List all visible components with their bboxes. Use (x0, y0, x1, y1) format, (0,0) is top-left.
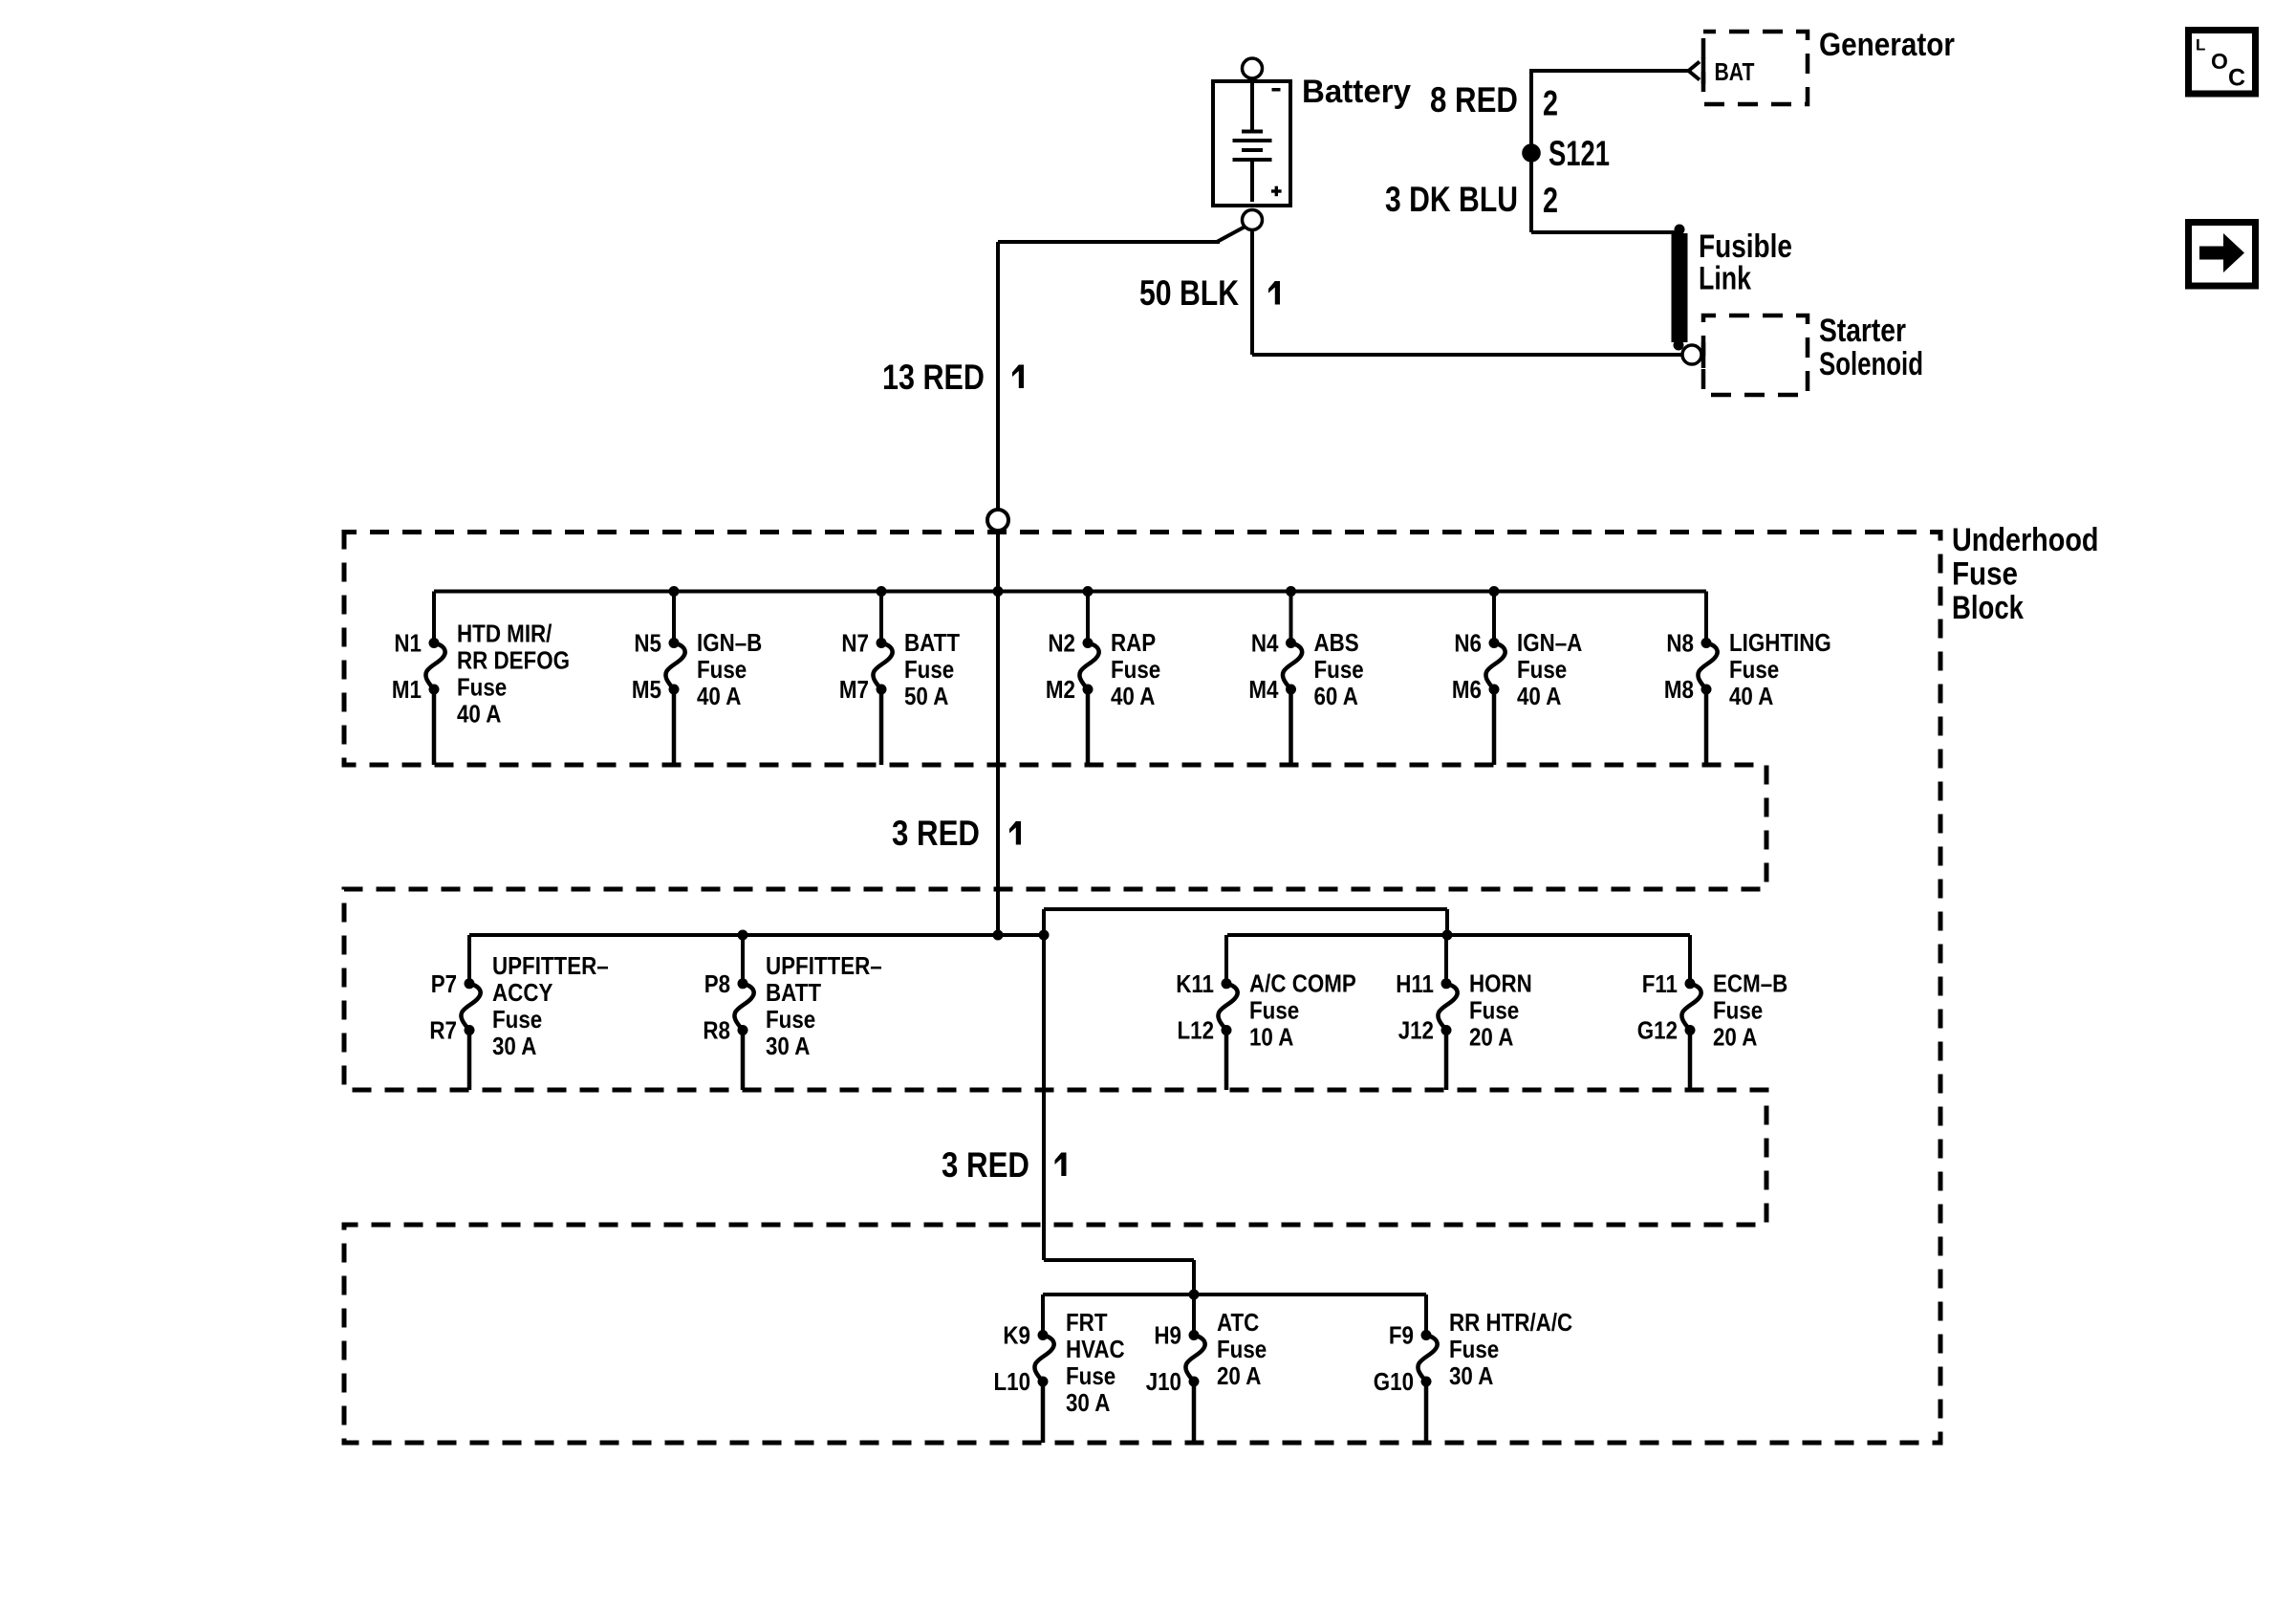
svg-text:G10: G10 (1374, 1367, 1414, 1396)
svg-text:M7: M7 (839, 675, 869, 704)
battery minus sign (1272, 88, 1281, 92)
svg-text:N1: N1 (394, 629, 422, 658)
terminal dot J12 (1441, 1025, 1452, 1035)
svg-text:Fuse: Fuse (492, 1005, 542, 1033)
terminal dot F11 (1685, 978, 1696, 989)
svg-text:M5: M5 (632, 675, 661, 704)
svg-text:N5: N5 (634, 629, 661, 658)
svg-text:RR DEFOG: RR DEFOG (457, 646, 570, 675)
wire stub below M1 to block edge (432, 689, 437, 765)
starter solenoid dashed box (1703, 315, 1808, 395)
svg-text:40 A: 40 A (1111, 682, 1156, 710)
svg-text:UPFITTER–: UPFITTER– (492, 951, 609, 980)
connector circle at fuse block entry (987, 510, 1008, 531)
wire 50 BLK horizontal to starter solenoid (1252, 353, 1682, 357)
svg-text:Fuse: Fuse (1066, 1361, 1116, 1390)
svg-text:H9: H9 (1154, 1321, 1181, 1350)
svg-text:HORN: HORN (1469, 969, 1532, 998)
battery B1 box (1213, 81, 1290, 206)
fuse element ABS (1283, 643, 1302, 690)
svg-text:K11: K11 (1176, 969, 1214, 998)
terminal dot F9 (1421, 1330, 1432, 1340)
terminal dot N6 (1489, 638, 1500, 648)
svg-text:P7: P7 (431, 969, 457, 998)
wire stub below M5 to block edge (672, 689, 677, 765)
svg-text:L: L (2196, 35, 2205, 54)
svg-text:F11: F11 (1642, 969, 1678, 998)
wire stub from row 2 bus to P8 (741, 935, 745, 984)
wire stub from row 1 bus to N5 (672, 592, 676, 643)
svg-text:J10: J10 (1146, 1367, 1181, 1396)
svg-text:IGN–B: IGN–B (697, 628, 762, 657)
terminal dot G10 (1421, 1377, 1432, 1387)
svg-text:BATT: BATT (766, 978, 821, 1007)
wire trunk jog horizontal (1044, 1258, 1194, 1262)
svg-text:8 RED: 8 RED (1430, 80, 1518, 120)
arrow reference box (2189, 223, 2256, 287)
terminal dot N7 (877, 638, 887, 648)
battery positive terminal circle (1243, 210, 1263, 230)
BAT connector arrow at generator (1689, 62, 1700, 80)
svg-text:Block: Block (1952, 590, 2024, 626)
row 3 feed bus (1043, 1293, 1426, 1296)
fusible link element bar (1672, 233, 1688, 342)
arrow glyph (2199, 233, 2244, 272)
svg-text:3 RED: 3 RED (892, 814, 980, 853)
junction on row 1 bus at N6 (1489, 586, 1500, 597)
fusible link top terminal dot (1675, 225, 1685, 235)
battery plate short 2 (1242, 148, 1263, 152)
terminal dot M8 (1701, 685, 1712, 695)
svg-text:Fuse: Fuse (457, 673, 507, 702)
svg-text:30 A: 30 A (492, 1032, 537, 1060)
fuse element ECM-B (1681, 984, 1700, 1031)
wire 8 RED from generator BAT horizontal (1531, 69, 1688, 73)
svg-text:S121: S121 (1549, 134, 1610, 173)
wire stub below R7 to block edge (467, 1031, 472, 1091)
svg-text:R8: R8 (703, 1016, 730, 1045)
fuse element UPFITTER-ACCY (461, 984, 480, 1031)
svg-text:K9: K9 (1003, 1321, 1030, 1350)
wire riser from row 2 bus junction (1042, 909, 1046, 935)
terminal dot M4 (1286, 685, 1296, 695)
svg-text:20 A: 20 A (1713, 1023, 1758, 1052)
wire drop from upper branch to right bus (1445, 909, 1449, 935)
svg-text:BAT: BAT (1715, 57, 1755, 86)
svg-text:Fuse: Fuse (1111, 655, 1160, 684)
fuse element HTD MIR/RR DEFOG (425, 643, 444, 690)
svg-text:Fuse: Fuse (1517, 655, 1567, 684)
svg-text:L12: L12 (1178, 1016, 1215, 1045)
svg-text:M8: M8 (1664, 675, 1694, 704)
label circuit 1 at 50 BLK (1268, 281, 1280, 305)
fusible link bottom terminal dot (1674, 340, 1684, 351)
svg-text:Fuse: Fuse (1217, 1335, 1267, 1363)
junction on row 1 bus at N4 (1286, 586, 1296, 597)
terminal dot R7 (465, 1025, 475, 1035)
row 2 right bus (1227, 933, 1690, 937)
terminal dot M6 (1489, 685, 1500, 695)
terminal dot K9 (1038, 1330, 1049, 1340)
wire stub below G10 to block edge (1424, 1382, 1429, 1443)
svg-text:RAP: RAP (1111, 628, 1156, 657)
terminal dot G12 (1685, 1025, 1696, 1035)
wire stub from row 3 bus to F9 (1424, 1295, 1428, 1336)
svg-text:40 A: 40 A (1517, 682, 1562, 710)
svg-text:Fuse: Fuse (1469, 996, 1519, 1025)
wire stub from row 3 bus to H9 (1192, 1295, 1196, 1336)
splice S121 (1522, 143, 1541, 163)
wire 3 RED trunk from row 2 bus downward (1042, 935, 1046, 1260)
wire stub below G12 to block edge (1688, 1031, 1693, 1091)
svg-text:Fuse: Fuse (1249, 996, 1299, 1025)
junction on row 1 bus at N5 (669, 586, 680, 597)
wire stub from row 1 bus to N2 (1086, 592, 1090, 643)
junction on row 2 bus at P8 (738, 930, 748, 941)
battery internal lead positive (1250, 162, 1254, 202)
svg-text:50 A: 50 A (904, 682, 949, 710)
junction on row 1 bus at N7 (877, 586, 887, 597)
wire 3 DK BLU horizontal to fusible link (1531, 230, 1679, 234)
svg-text:60 A: 60 A (1314, 682, 1359, 710)
wire stub below L12 to block edge (1224, 1031, 1229, 1091)
wire stub below M4 to block edge (1289, 689, 1293, 765)
svg-text:Link: Link (1699, 261, 1751, 297)
svg-text:N7: N7 (841, 629, 869, 658)
svg-text:30 A: 30 A (766, 1032, 811, 1060)
svg-text:Fuse: Fuse (1449, 1335, 1499, 1363)
svg-text:HTD MIR/: HTD MIR/ (457, 620, 552, 648)
terminal dot L12 (1222, 1025, 1232, 1035)
svg-text:J12: J12 (1398, 1016, 1434, 1045)
wire stub below J10 to block edge (1192, 1382, 1197, 1443)
terminal dot K11 (1222, 978, 1232, 989)
fuse element BATT (873, 643, 892, 690)
svg-text:RR HTR/A/C: RR HTR/A/C (1449, 1308, 1572, 1337)
svg-text:R7: R7 (429, 1016, 457, 1045)
underhood fuse block dashed outline (344, 533, 1940, 1444)
svg-text:ABS: ABS (1314, 628, 1359, 657)
wire stub below M6 to block edge (1492, 689, 1497, 765)
fuse element FRT HVAC (1034, 1336, 1053, 1382)
wire 13 RED diagonal+horizontal from battery positive (998, 227, 1245, 242)
svg-text:G12: G12 (1637, 1016, 1678, 1045)
battery plus sign (1271, 189, 1282, 192)
svg-text:LIGHTING: LIGHTING (1729, 628, 1831, 657)
label circuit 1 at first 3 RED (1009, 821, 1021, 845)
wire stub from row 2 right bus to F11 (1688, 935, 1692, 984)
fuse element LIGHTING (1698, 643, 1717, 690)
LOC reference box (2189, 31, 2256, 95)
battery plate short 1 (1242, 130, 1263, 134)
svg-text:HVAC: HVAC (1066, 1335, 1125, 1363)
svg-text:50 BLK: 50 BLK (1139, 273, 1239, 313)
svg-text:C: C (2228, 65, 2245, 92)
starter solenoid terminal circle (1682, 345, 1701, 364)
svg-text:13 RED: 13 RED (882, 358, 985, 397)
svg-text:N8: N8 (1666, 629, 1694, 658)
svg-text:ACCY: ACCY (492, 978, 552, 1007)
svg-text:Fuse: Fuse (1314, 655, 1364, 684)
svg-text:30 A: 30 A (1066, 1388, 1111, 1417)
svg-text:A/C COMP: A/C COMP (1249, 969, 1356, 998)
battery negative terminal circle (1243, 58, 1263, 78)
svg-text:Underhood: Underhood (1952, 522, 2099, 558)
fuse element HORN (1438, 984, 1457, 1031)
fuse element RAP (1079, 643, 1098, 690)
fuse element IGN-B (665, 643, 684, 690)
terminal dot N4 (1286, 638, 1296, 648)
svg-text:IGN–A: IGN–A (1517, 628, 1582, 657)
terminal dot H11 (1441, 978, 1452, 989)
svg-text:ECM–B: ECM–B (1713, 969, 1787, 998)
wire stub from row 2 right bus to K11 (1224, 935, 1228, 984)
svg-text:2: 2 (1543, 84, 1558, 123)
wire stub from row 1 bus to N4 (1289, 592, 1293, 643)
svg-text:O: O (2211, 49, 2228, 74)
svg-text:40 A: 40 A (1729, 682, 1774, 710)
terminal dot P8 (738, 978, 748, 989)
row 2 feed bus (469, 933, 1044, 937)
svg-text:3 DK BLU: 3 DK BLU (1385, 180, 1518, 219)
terminal dot L10 (1038, 1377, 1049, 1387)
svg-text:FRT: FRT (1066, 1308, 1108, 1337)
terminal dot J10 (1189, 1377, 1200, 1387)
junction on row 2 right bus at H11 (1442, 930, 1453, 941)
svg-text:Fuse: Fuse (1713, 996, 1763, 1025)
label circuit 1 at 13 RED (1012, 365, 1024, 389)
wire stub below J12 to block edge (1444, 1031, 1449, 1091)
svg-text:M4: M4 (1248, 675, 1279, 704)
starter solenoid box edge bar at terminal (1701, 342, 1706, 368)
svg-text:40 A: 40 A (457, 700, 502, 729)
battery plate long 2 (1233, 158, 1272, 162)
svg-text:20 A: 20 A (1217, 1361, 1262, 1390)
svg-text:M6: M6 (1452, 675, 1482, 704)
svg-text:2: 2 (1543, 181, 1558, 220)
BAT connector bar on generator box edge (1701, 57, 1706, 84)
svg-text:Fuse: Fuse (766, 1005, 815, 1033)
wire stub below M7 to block edge (879, 689, 884, 765)
fuse element A/C COMP (1218, 984, 1237, 1031)
wire stub from row 2 right bus to H11 (1444, 935, 1448, 984)
svg-text:Fuse: Fuse (904, 655, 954, 684)
svg-text:Battery: Battery (1302, 74, 1411, 110)
wire trunk jog down to row 3 bus (1192, 1260, 1196, 1295)
wire stub below M2 to block edge (1086, 689, 1091, 765)
terminal dot N2 (1083, 638, 1094, 648)
terminal dot N1 (429, 638, 440, 648)
svg-text:H11: H11 (1396, 969, 1434, 998)
generator dashed box (1703, 32, 1808, 104)
terminal dot H9 (1189, 1330, 1200, 1340)
svg-text:P8: P8 (704, 969, 730, 998)
wire 50 BLK vertical from battery positive (1250, 228, 1254, 355)
svg-text:Starter: Starter (1819, 313, 1906, 349)
junction on row 3 bus at trunk (1189, 1290, 1200, 1300)
wire stub from row 1 bus to N1 (432, 592, 436, 643)
svg-text:10 A: 10 A (1249, 1023, 1294, 1052)
wire upper branch to right-side bus (1044, 907, 1447, 911)
terminal dot P7 (465, 978, 475, 989)
terminal dot M1 (429, 685, 440, 695)
svg-text:40 A: 40 A (697, 682, 742, 710)
wire 13 RED vertical to fuse block connector (996, 242, 1000, 510)
wire trunk into fuse block row 1 (996, 531, 1000, 935)
svg-text:M1: M1 (392, 675, 422, 704)
terminal dot N5 (669, 638, 680, 648)
wire stub below M8 to block edge (1704, 689, 1709, 765)
svg-text:20 A: 20 A (1469, 1023, 1514, 1052)
wire stub from row 1 bus to N8 (1704, 592, 1708, 643)
fuse element IGN-A (1485, 643, 1505, 690)
junction on row 2 bus at riser (1039, 930, 1050, 941)
wire stub from row 1 bus to N6 (1492, 592, 1496, 643)
fuse element ATC (1185, 1336, 1204, 1382)
svg-text:F9: F9 (1389, 1321, 1414, 1350)
wire stub from row 2 bus to P7 (467, 935, 471, 984)
svg-text:N4: N4 (1251, 629, 1279, 658)
wire 3 DK BLU vertical from S121 (1529, 153, 1533, 232)
svg-text:N6: N6 (1454, 629, 1482, 658)
svg-text:Fusible: Fusible (1699, 228, 1792, 265)
svg-text:30 A: 30 A (1449, 1361, 1494, 1390)
row 1 feed bus (434, 590, 1706, 594)
svg-text:N2: N2 (1048, 629, 1075, 658)
wire stub from row 3 bus to K9 (1041, 1295, 1045, 1336)
svg-text:ATC: ATC (1217, 1308, 1259, 1337)
terminal dot M2 (1083, 685, 1094, 695)
terminal dot N8 (1701, 638, 1712, 648)
fuse element RR HTR/A/C (1418, 1336, 1437, 1382)
battery internal lead negative (1250, 83, 1254, 130)
junction on row 2 bus at trunk (993, 930, 1004, 941)
svg-text:M2: M2 (1046, 675, 1075, 704)
svg-text:L10: L10 (994, 1367, 1031, 1396)
svg-text:Fuse: Fuse (1729, 655, 1779, 684)
junction on row 1 bus at trunk (993, 586, 1004, 597)
svg-text:3 RED: 3 RED (942, 1145, 1029, 1185)
label circuit 1 at second 3 RED (1055, 1153, 1067, 1177)
battery plate long 1 (1233, 139, 1272, 142)
svg-text:Solenoid: Solenoid (1819, 346, 1923, 382)
svg-text:Generator: Generator (1819, 27, 1955, 63)
wire 8 RED vertical to S121 (1529, 69, 1533, 153)
wire stub below R8 to block edge (741, 1031, 746, 1091)
terminal dot M7 (877, 685, 887, 695)
fuse element UPFITTER-BATT (734, 984, 753, 1031)
svg-text:Fuse: Fuse (697, 655, 747, 684)
wire stub from row 1 bus to N7 (879, 592, 883, 643)
svg-text:Fuse: Fuse (1952, 556, 2018, 593)
terminal dot R8 (738, 1025, 748, 1035)
junction on row 1 bus at N2 (1083, 586, 1094, 597)
wire stub below L10 to block edge (1041, 1382, 1046, 1443)
svg-text:BATT: BATT (904, 628, 960, 657)
terminal dot M5 (669, 685, 680, 695)
svg-text:UPFITTER–: UPFITTER– (766, 951, 882, 980)
